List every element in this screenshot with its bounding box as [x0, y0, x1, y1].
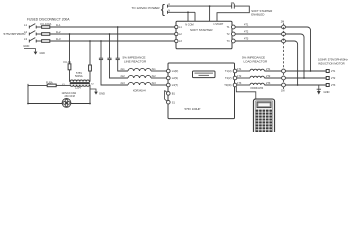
wire contact to START terminal: [217, 6, 249, 21]
wire phase3 bus: [50, 40, 176, 42]
svg-text:SOFT STARTER: SOFT STARTER: [190, 28, 213, 32]
svg-text:1L3: 1L3: [56, 37, 61, 41]
wire reactor to drive contactor row1: [264, 70, 281, 72]
svg-text:S1: S1: [172, 100, 176, 104]
svg-text:500VA: 500VA: [75, 74, 83, 78]
svg-text:L3: L3: [24, 37, 27, 41]
soft starter box: [176, 21, 232, 49]
svg-text:1M: 1M: [281, 89, 284, 92]
line reactor drop phase2 with terminal bars: [107, 34, 128, 78]
svg-text:KDR341H4: KDR341H4: [251, 87, 264, 90]
soft starter enable contact 2M: [231, 2, 235, 9]
line reactor winding phase1: [128, 68, 151, 71]
load reactor winding phase3: [250, 83, 264, 85]
svg-text:L1: L1: [24, 23, 27, 27]
wire T1 to bypass contactor: [235, 26, 281, 28]
drive input terminal L1(R): [167, 69, 171, 73]
soft starter output terminal T2: [231, 32, 235, 36]
soft starter input terminal L2: [175, 32, 178, 35]
wire contactor to motor row1: [285, 70, 326, 72]
svg-text:120V: 120V: [75, 86, 81, 90]
svg-text:4T2: 4T2: [244, 30, 249, 33]
svg-text:T2(V): T2(V): [225, 76, 232, 80]
line reactor drop phase3 with terminal bars: [99, 41, 128, 85]
control transformer primary drop fuse FU-3A: [64, 34, 72, 82]
drive terminal B1 with jumper stub: [165, 90, 176, 95]
VFD drive box: [168, 63, 235, 119]
secondary left down wire to fan line: [28, 85, 62, 103]
line reactor winding phase3: [128, 82, 151, 85]
wire T3 to bypass contactor: [235, 40, 281, 42]
svg-text:B1: B1: [172, 92, 176, 96]
drive contactor 1M poles: [281, 69, 285, 92]
wire phase1 bus: [50, 26, 176, 28]
svg-text:ENABLED: ENABLED: [251, 13, 264, 17]
svg-text:575V/3PH/60Hz: 575V/3PH/60Hz: [4, 32, 27, 36]
svg-text:L3(T): L3(T): [172, 83, 178, 87]
svg-text:GND: GND: [99, 92, 105, 96]
fan line to transformer secondary right: [71, 85, 91, 105]
wire bypass row3 down to motor row3: [285, 41, 297, 85]
svg-text:2L2: 2L2: [121, 75, 126, 78]
bypass contactor 2M poles: [281, 21, 286, 43]
motor ground GND: [317, 85, 330, 95]
line reactor winding phase2: [128, 75, 151, 78]
junction dot wire3 x101: [100, 40, 102, 42]
svg-text:2T3: 2T3: [331, 84, 336, 87]
soft starter input terminal L1: [175, 25, 178, 28]
svg-text:L2(S): L2(S): [172, 76, 178, 80]
soft starter input terminal L3: [175, 39, 178, 42]
svg-text:N COM: N COM: [185, 24, 193, 27]
drive input terminal L2(S): [167, 76, 171, 80]
wire drive T2 to load reactor: [237, 77, 250, 79]
line reactor drop phase1 with terminal bars: [116, 27, 128, 71]
svg-text:FUSED DISCONNECT 200A: FUSED DISCONNECT 200A: [27, 17, 70, 21]
load reactor winding phase1: [250, 69, 264, 71]
disconnect switch pole 3: [29, 38, 36, 43]
svg-text:1L1: 1L1: [56, 23, 61, 27]
wire drive T1 to load reactor: [237, 70, 250, 72]
svg-text:L1(R): L1(R): [172, 69, 179, 73]
wire reactor to drive L2: [151, 77, 167, 79]
svg-text:LINE REACTOR: LINE REACTOR: [124, 60, 147, 64]
wire contactor to motor row2: [285, 77, 326, 79]
control transformer primary drop 2 fuse: [89, 41, 92, 82]
svg-text:2L1: 2L1: [121, 68, 126, 71]
wire reactor to drive contactor row2: [264, 77, 281, 79]
svg-text:LOAD REACTOR: LOAD REACTOR: [244, 59, 268, 63]
junction dot wire1 x117.7: [117, 26, 119, 28]
wire reactor to drive L3: [151, 84, 167, 86]
drive nameplate box: [193, 71, 216, 78]
wire drive T3 to load reactor: [237, 84, 250, 86]
soft starter output terminal T1: [231, 25, 235, 29]
svg-text:{: {: [161, 3, 165, 17]
svg-text:1 START: 1 START: [213, 23, 224, 26]
calculator image: [253, 99, 274, 134]
wire reactor to drive contactor row3: [264, 84, 281, 86]
svg-text:2T1: 2T1: [331, 70, 336, 73]
svg-text:T3(W): T3(W): [224, 83, 231, 87]
wire phase2 bus: [50, 33, 176, 35]
drive output terminal T2(V): [233, 76, 237, 80]
disconnect switch pole 2: [29, 31, 36, 36]
cooling fan symbol: [62, 99, 71, 108]
svg-text:575V 100HP: 575V 100HP: [185, 107, 201, 111]
disconnect switch pole 1: [29, 24, 36, 29]
control line N: [168, 9, 196, 13]
drive terminal S1 with jumper stub: [165, 90, 176, 104]
control line A: [168, 3, 232, 7]
wire bypass row1 down to motor row1: [285, 27, 310, 71]
load reactor winding phase2: [250, 76, 264, 78]
control transformer T1 575V:120V 500VA: [62, 71, 94, 90]
wire reactor to drive L1: [151, 70, 167, 72]
svg-text:GND: GND: [23, 44, 29, 48]
svg-text:GND: GND: [40, 52, 46, 55]
drop to soft starter COM terminal: [194, 12, 196, 21]
svg-text:L2: L2: [24, 30, 27, 34]
fuse pole 3: [36, 40, 50, 43]
drive input terminal L3(T): [167, 83, 171, 87]
wire T2 to bypass contactor: [235, 33, 281, 35]
svg-text:KDR341H4: KDR341H4: [133, 90, 146, 93]
svg-text:4T3: 4T3: [244, 37, 249, 40]
svg-text:TO 120VAC POWER: TO 120VAC POWER: [132, 6, 161, 10]
svg-text:2M: 2M: [281, 21, 284, 24]
svg-text:GND: GND: [324, 90, 330, 94]
junction dot wire2 x69.5: [69, 33, 71, 35]
drop to soft starter terminal 1: [209, 6, 211, 21]
svg-text:4T1: 4T1: [244, 23, 249, 26]
drop to soft starter N terminal: [187, 12, 189, 21]
svg-text:INDUCTION MOTOR: INDUCTION MOTOR: [318, 61, 345, 65]
svg-text:T1(U): T1(U): [225, 69, 232, 73]
svg-text:2T2: 2T2: [331, 77, 336, 80]
svg-text:1L2: 1L2: [56, 30, 61, 34]
motor terminal 2T1: [326, 70, 329, 73]
drive output terminal T3(W): [233, 83, 237, 87]
leader line to calculator: [236, 87, 256, 100]
transformer ground GND: [90, 89, 105, 96]
motor terminal 2T3: [326, 84, 329, 87]
service ground GND: [23, 44, 45, 55]
fuse pole 2: [36, 33, 50, 36]
soft starter output terminal T3: [231, 39, 235, 43]
svg-text:230 CFM: 230 CFM: [65, 95, 75, 98]
wire bypass row2 down to motor row2: [285, 34, 304, 78]
junction dot wire3 x90: [89, 40, 91, 42]
drive output terminal T1(U): [233, 69, 237, 73]
fuse FU-100A pole 1: [36, 26, 50, 29]
contactor mechanical dashed link: [283, 23, 285, 69]
motor terminal 2T2: [326, 77, 329, 80]
transformer secondary left wire to fuse FU5A: [28, 80, 70, 87]
svg-text:2L3: 2L3: [121, 82, 126, 85]
junction dot wire2 x109.5: [109, 33, 111, 35]
wire contactor to motor row3: [285, 84, 326, 86]
